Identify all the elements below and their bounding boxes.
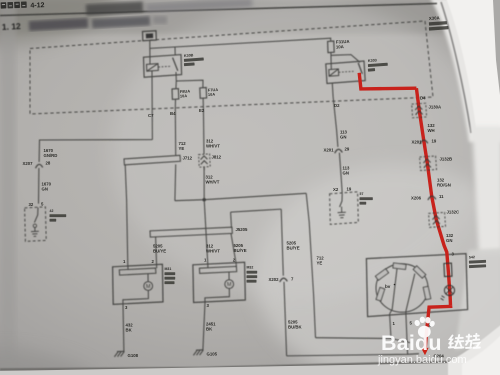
wire B+ to left relay coil [149,41,151,64]
svg-text:BK: BK [126,328,133,333]
BCM left ground symbol [31,228,39,237]
connector X207 chevron [36,164,43,168]
svg-text:WH/VT: WH/VT [206,249,220,254]
svg-text:J5205: J5205 [236,227,249,232]
wire J712 down to horizontal run [174,164,177,200]
svg-text:K30B: K30B [184,53,194,58]
svg-text:C7: C7 [148,113,154,118]
motor M31 M circle [144,282,153,291]
red highlighted circuit path [359,73,450,355]
connector X201 red chevron [420,140,428,144]
wire J812 to junction [203,167,205,200]
svg-text:D2: D2 [334,103,340,108]
wire 712YE bottom horizontal to lamp box [316,338,411,343]
red wire D4 down through connectors to headlamp [416,88,450,305]
actuator chord wire pin1 [390,269,397,314]
top dark band [0,0,445,34]
svg-text:10A: 10A [180,93,188,98]
svg-text:GN: GN [340,135,346,140]
motor M31 ground wire 432 BK [122,304,125,351]
blurred redaction smudges [86,1,143,15]
svg-text:B4: B4 [170,111,176,116]
relay K303 coil [329,69,339,76]
page bottom edge dark line [0,362,462,370]
svg-text:WH/VT: WH/VT [206,180,220,185]
svg-text:29: 29 [345,147,350,152]
wire F31UA to right relay coil [330,53,332,70]
relay K303 coil diagonal [329,69,338,76]
connector X202 chevron [280,278,288,282]
connector J130A chevrons [415,106,422,115]
svg-text:X30A: X30A [429,15,440,21]
wire left relay switch down to fuse split [175,72,177,81]
BCM left driver symbol [33,224,36,227]
wire 5205 riser down to X202 [281,209,283,276]
motor M32 connector bar [199,266,236,273]
wire X207 to BCM left [38,168,40,204]
motor M31 connector bar [119,268,156,275]
svg-text:GN: GN [42,187,48,192]
actuator connector circle [376,264,428,312]
svg-text:X2: X2 [333,187,339,192]
svg-text:J132C: J132C [447,210,460,215]
svg-text:M: M [146,284,151,290]
bottom-left corner shadow [0,351,100,375]
top-left corner shadow [0,0,115,44]
wire junction down to motor M32 pin1 [204,200,208,265]
wire 5205 bottom horizontal to C204 [287,354,419,356]
far right grey sliver [493,0,500,95]
relay K30B box [144,55,182,78]
svg-text:X201: X201 [324,148,335,153]
motor M31 box [113,264,163,304]
svg-text:28: 28 [46,161,51,166]
bottom-right white curl corner [448,324,500,375]
BCM right ground symbol [338,207,346,218]
fuse F8UA [172,89,179,100]
svg-text:jingyan.baidu.com: jingyan.baidu.com [377,354,467,366]
connector X206 red chevron [428,196,436,200]
wire 5205 down to J5205 [230,212,233,228]
wire actuator pin5 drop [406,314,408,354]
relay K30B coil [147,64,159,72]
ground G105 right [193,350,203,356]
connector J812 chevrons [201,156,208,170]
svg-text:WH: WH [428,128,435,133]
fuse block X30A dashed box [30,21,433,114]
svg-text:M32: M32 [247,266,254,270]
relay K303 switch blade [358,63,362,74]
svg-text:GN/RD: GN/RD [44,153,58,158]
actuator pad left [376,287,385,301]
center-right bright zone [255,165,500,375]
actuator chord wire pin5 [406,274,415,314]
motor M32 ground wire 2451 BK [203,302,205,349]
connector J132C chevrons [433,216,440,225]
fuse F31UA [328,41,335,53]
actuator pad upper-right [413,266,426,278]
relay K303 box [326,61,365,84]
svg-text:J130A: J130A [429,105,442,110]
wire C7 corner to X207 [39,140,152,162]
wire J5205 to motor M31 pin2 [156,237,157,266]
svg-text:X207: X207 [23,161,34,166]
red wire relay K303 to D4 corner [359,73,416,89]
motor M32 M circle [225,280,234,289]
leveling lamp cross [446,287,453,294]
svg-text:RD/GN: RD/GN [437,183,451,188]
ground G108 left [114,351,124,357]
splice bar J5205 [150,227,232,237]
svg-text:bv: bv [385,284,391,289]
actuator pad top [393,263,406,269]
leveling lamp circle [444,285,454,295]
Baidu watermark [377,317,480,366]
red wire lamp to C204 [425,305,451,349]
wire actuator pin1 drop [390,314,391,339]
svg-text:J712: J712 [183,156,193,161]
svg-text:Baidu: Baidu [381,331,442,355]
wire split down to F8UA [175,81,177,89]
wire X201 to BCM X2-19 [339,153,342,194]
svg-text:BK: BK [206,327,213,332]
red arrowhead at C204 [421,348,428,355]
svg-text:19: 19 [347,187,352,192]
page curl white top-right [430,0,500,142]
connector J130A dashed box [412,103,427,118]
svg-text:YE: YE [179,146,185,151]
wire F7UA to J812 [202,98,205,154]
svg-text:G105: G105 [207,352,218,357]
junction node [203,198,206,201]
svg-text:BU/YE: BU/YE [153,249,166,254]
BCM left switch blade [34,208,38,223]
motor M32 box [193,262,245,302]
wire 712YE corner down right side [306,193,315,337]
svg-text:G108: G108 [128,353,139,358]
svg-text:542: 542 [469,255,475,259]
svg-text:X201: X201 [412,140,423,145]
svg-text:4-12: 4-12 [30,2,44,9]
relay K30B switch blade [173,58,178,71]
wire J712 left end to motor M31 pin1 [125,165,128,266]
battery feed B+ symbol blob [146,33,153,38]
wire K303 coil to D2 to X201 [332,83,338,147]
wire split horizontal to F7UA [176,80,203,88]
svg-text:WH/VT: WH/VT [206,144,220,149]
wire B+ feed horizontal to F31UA [150,38,331,48]
wire left relay coil to C7 [151,71,153,140]
wire 5205 top horizontal [231,209,282,212]
battery feed B+ box [143,31,157,41]
svg-text:10A: 10A [208,92,216,97]
wire J5205 to motor M32 pin2 [231,234,236,265]
connector J132C dashed box [429,212,446,227]
svg-text:J132B: J132B [440,157,453,162]
svg-text:X202: X202 [269,277,280,282]
svg-text:D4: D4 [420,96,426,101]
page edge dark line top-right [441,2,471,133]
below-edge light strip [0,360,500,375]
BCM left dashed box [25,207,47,242]
left edge shading [0,0,16,375]
wire X202 down to bottom run [284,282,287,356]
right side white strip [472,126,500,256]
svg-text:1. 12: 1. 12 [2,21,22,32]
connector J812 dashed box [199,154,211,167]
svg-text:BU/YE: BU/YE [287,246,300,251]
BCM right switch blade [340,194,343,207]
relay K30B dashed link [158,65,171,68]
svg-text:11: 11 [439,194,444,199]
wire jog F31UA to right relay switch [331,55,360,63]
connector X201 black chevron [335,149,343,153]
svg-text:YE: YE [317,261,323,266]
header rule line [0,4,437,16]
paw pad [418,326,431,338]
svg-text:32: 32 [29,202,34,207]
BCM right dashed box [330,192,359,225]
headlamp unit 542 box [366,254,467,317]
splice bar J712 [124,155,180,165]
svg-text:42: 42 [50,209,54,213]
wire stub feed to left relay switch [174,47,176,55]
lamp tick marks [441,296,445,301]
svg-text:GN: GN [446,238,452,243]
svg-text:19: 19 [432,139,437,144]
lamp fuse element on red wire [444,263,452,277]
svg-text:BU/YE: BU/YE [234,248,247,253]
fuse F7UA [200,88,207,99]
svg-text:E2: E2 [199,108,205,113]
connector J132B dashed box [420,156,437,171]
actuator pad upper-left [375,269,388,280]
svg-text:BU/BK: BU/BK [288,325,303,330]
motor M31 internal wires [123,266,157,304]
wire horizontal run 712YE to right [175,193,306,200]
motor M32 internal wires [205,264,236,302]
relay K303 dashed link [339,71,354,72]
right lower light zone [455,248,500,350]
actuator pad right [423,286,431,299]
svg-text:J812: J812 [212,155,222,160]
svg-text:M: M [227,282,232,288]
relay K30B coil diagonal [147,64,158,72]
wire F8UA to J712 [174,99,176,155]
svg-text:X206: X206 [411,196,422,201]
svg-text:GN: GN [343,171,349,176]
svg-text:K303: K303 [368,58,377,63]
svg-text:10A: 10A [336,44,344,49]
connector J132B chevrons [424,159,431,168]
svg-text:M31: M31 [165,267,172,271]
svg-text:57: 57 [360,192,364,196]
header text [1,0,253,32]
